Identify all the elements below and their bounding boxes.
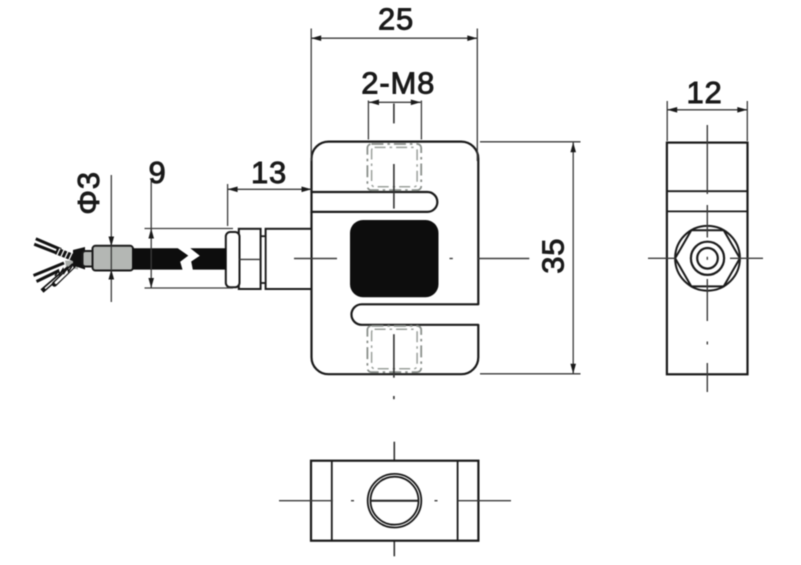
svg-text:12: 12 bbox=[686, 75, 722, 110]
svg-text:35: 35 bbox=[536, 238, 571, 274]
svg-text:13: 13 bbox=[251, 155, 287, 190]
svg-text:2-M8: 2-M8 bbox=[361, 66, 435, 101]
svg-text:9: 9 bbox=[148, 155, 166, 190]
svg-text:Φ3: Φ3 bbox=[71, 171, 106, 215]
svg-text:25: 25 bbox=[378, 1, 414, 36]
